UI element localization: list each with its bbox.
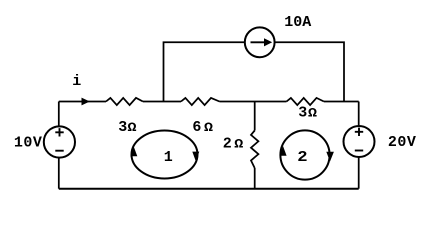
voltage source V1 10V [44,126,75,157]
resistor R4 2ohm vertical [251,131,258,169]
svg-text:10V: 10V [14,134,43,151]
svg-text:20V: 20V [388,134,417,151]
wire middle branch top [254,102,256,131]
wire main horizontal left segment with current arrow [59,101,106,103]
wire left branch bottom [58,158,60,189]
resistor R2 6ohm [181,98,220,105]
svg-text:Ω: Ω [308,108,317,122]
svg-text:3: 3 [118,119,127,136]
svg-text:Ω: Ω [128,122,137,136]
wire between R2 and R3 [220,101,287,103]
svg-text:2: 2 [297,149,307,166]
wire top-left vertical and top wire left segment [164,42,245,101]
svg-text:6: 6 [192,119,201,136]
svg-text:10A: 10A [284,14,311,31]
mesh current loop 2 [280,130,329,179]
svg-text:3: 3 [298,105,307,122]
svg-text:2: 2 [223,136,232,153]
current direction arrow i [82,98,90,106]
voltage source V2 20V [344,126,375,157]
wire between R1 and R2 [143,101,181,103]
svg-text:i: i [72,73,81,90]
resistor R3 3ohm right [287,98,324,105]
wire main horizontal right end [324,101,359,103]
svg-text:Ω: Ω [204,122,213,136]
resistor R1 3ohm [106,98,143,105]
wire bottom [59,188,359,190]
wire top wire right segment and top-right vertical [275,42,344,101]
svg-text:1: 1 [164,149,173,166]
wire left branch top [58,102,60,127]
wire middle branch bottom [254,168,256,189]
svg-text:Ω: Ω [234,139,243,153]
wire right branch bottom [358,157,360,189]
mesh current loop 1 [132,131,198,179]
wire right branch top [358,102,360,127]
current source I1 10A [245,27,275,57]
